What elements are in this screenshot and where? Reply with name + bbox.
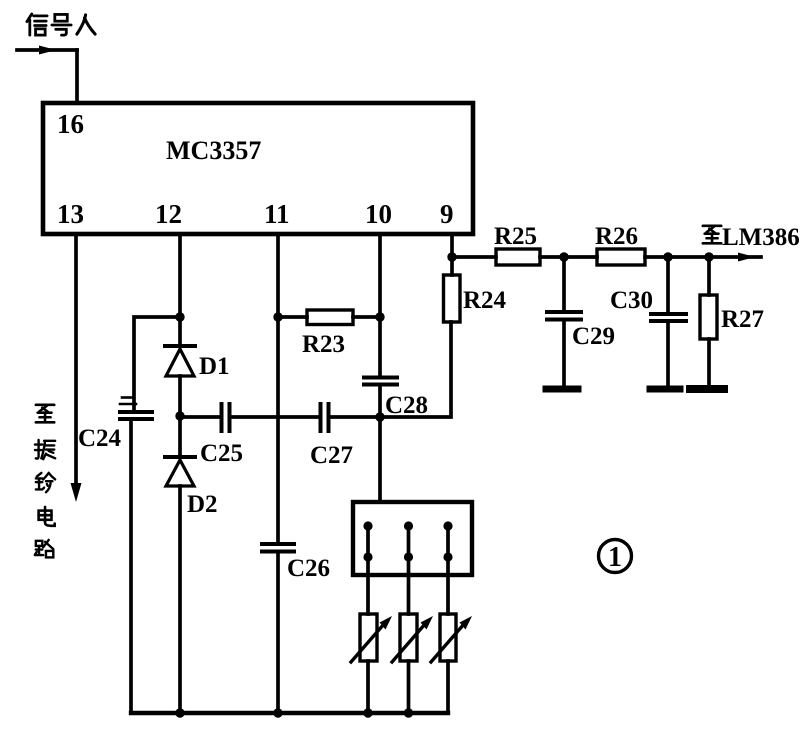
wire C24 bottom to rail bbox=[129, 421, 133, 711]
node label 信号入 (signal in) bbox=[27, 14, 95, 35]
node junction rail pin12 bbox=[175, 708, 184, 717]
node label 至LM386 bbox=[703, 224, 800, 251]
wire pin10 down to C28 bbox=[378, 234, 382, 375]
svg-text:C27: C27 bbox=[310, 442, 353, 469]
diode D2 bbox=[165, 457, 195, 486]
svg-text:MC3357: MC3357 bbox=[166, 136, 261, 165]
wire pin13 down with arrow to ringing circuit bbox=[71, 234, 82, 502]
wire R27 top lead bbox=[707, 257, 711, 295]
capacitor C25 bbox=[222, 404, 230, 431]
svg-text:R27: R27 bbox=[721, 306, 764, 333]
svg-text:10: 10 bbox=[365, 199, 392, 229]
filter stub 1 bbox=[363, 521, 372, 614]
resistor R24 bbox=[444, 275, 461, 322]
diode D1 bbox=[165, 346, 195, 376]
svg-text:R26: R26 bbox=[595, 223, 638, 250]
svg-text:C30: C30 bbox=[610, 287, 653, 314]
wire input horizontal with arrow bbox=[17, 46, 77, 55]
node junction C29 bbox=[559, 252, 568, 261]
wire C29 bottom lead bbox=[562, 321, 566, 386]
svg-text:LM386: LM386 bbox=[722, 224, 800, 251]
wire R27 bottom lead bbox=[707, 339, 711, 385]
ground R27 bbox=[690, 385, 724, 393]
wire pin11 down bbox=[276, 234, 280, 542]
ground C30 bbox=[650, 386, 680, 393]
capacitor C27 bbox=[321, 404, 329, 431]
node junction rail pot1 bbox=[363, 708, 372, 717]
svg-text:16: 16 bbox=[57, 109, 84, 139]
wire R26 to output with arrow bbox=[645, 253, 761, 262]
capacitor C24 bbox=[120, 412, 152, 419]
capacitor C29 bbox=[547, 312, 581, 320]
wire pot2 to rail bbox=[407, 661, 411, 713]
wire bottom rail bbox=[131, 711, 448, 715]
node junction pin12/C24 bbox=[175, 312, 184, 321]
svg-text:13: 13 bbox=[57, 199, 84, 229]
node junction pin12 row417 bbox=[175, 411, 184, 420]
resistor R23 bbox=[307, 310, 353, 325]
filter stub 3 bbox=[443, 521, 452, 614]
svg-text:R24: R24 bbox=[463, 287, 507, 314]
wire input vertical into pin 16 bbox=[75, 50, 79, 103]
capacitor C30 bbox=[651, 314, 686, 321]
svg-text:9: 9 bbox=[440, 199, 454, 229]
svg-text:1: 1 bbox=[608, 542, 622, 573]
figure number circled 1 bbox=[599, 540, 632, 574]
wire pin9 node to R24 bbox=[450, 257, 454, 275]
wire pin9 node to R25 bbox=[452, 255, 496, 259]
op-amp U1 IC MC3357 box bbox=[43, 103, 473, 234]
capacitor C28 bbox=[364, 378, 397, 385]
wire row417 right segment up to R24 bbox=[331, 322, 451, 417]
svg-text:C24: C24 bbox=[78, 425, 122, 452]
node label 至振铃电路 vertical bbox=[35, 405, 55, 558]
wire R25 to C29 node bbox=[540, 255, 597, 259]
svg-text:D2: D2 bbox=[187, 491, 218, 518]
potentiometer RP3 bbox=[431, 614, 472, 662]
wire C30 bottom lead bbox=[666, 322, 670, 386]
capacitor C26 bbox=[262, 544, 294, 552]
wire pin9 stub bbox=[450, 234, 454, 257]
node junction C30 bbox=[663, 252, 672, 261]
node junction pin10 row417 bbox=[375, 412, 384, 421]
node junction pin11/R23 bbox=[273, 312, 282, 321]
svg-text:D1: D1 bbox=[199, 353, 230, 380]
resistor R26 bbox=[597, 249, 645, 265]
svg-text:11: 11 bbox=[264, 199, 290, 229]
svg-text:C28: C28 bbox=[385, 392, 428, 419]
svg-text:C25: C25 bbox=[200, 440, 243, 467]
node junction pin9 bbox=[447, 252, 456, 261]
potentiometer RP1 bbox=[351, 614, 392, 662]
wire C26 down to rail bbox=[276, 553, 280, 713]
potentiometer RP2 bbox=[392, 614, 433, 662]
filter stub 2 bbox=[404, 521, 413, 614]
node junction R27 bbox=[704, 252, 713, 261]
wire pot3 to rail bbox=[446, 661, 450, 713]
ground C29 bbox=[546, 386, 578, 393]
resistor R25 bbox=[496, 249, 540, 265]
quad coil / filter box bbox=[353, 502, 472, 575]
node junction pin10/R23 bbox=[375, 312, 384, 321]
wire junction to C24 top bbox=[134, 317, 180, 409]
wire R23 right lead bbox=[353, 315, 380, 319]
svg-text:R23: R23 bbox=[302, 331, 345, 358]
node junction rail pot2 bbox=[404, 708, 413, 717]
wire D1 to junction bbox=[178, 376, 182, 456]
wire R23 left lead bbox=[278, 315, 307, 319]
resistor R27 bbox=[700, 295, 717, 339]
wire row417 mid segment bbox=[231, 415, 318, 419]
wire C28 down to filter box bbox=[378, 386, 382, 502]
capacitor C24 polarity marks bbox=[120, 398, 136, 405]
wire C30 top lead bbox=[666, 257, 670, 312]
svg-text:C29: C29 bbox=[572, 323, 615, 350]
wire pin12 down to D1 bbox=[178, 234, 182, 345]
svg-text:12: 12 bbox=[155, 199, 182, 229]
svg-text:C26: C26 bbox=[287, 555, 330, 582]
wire C29 top lead bbox=[562, 257, 566, 310]
wire row417 left segment bbox=[180, 415, 219, 419]
svg-text:R25: R25 bbox=[494, 223, 537, 250]
wire pot1 to rail bbox=[366, 661, 370, 713]
wire D2 down to bottom rail bbox=[178, 486, 182, 713]
node junction rail pin11 bbox=[273, 708, 282, 717]
